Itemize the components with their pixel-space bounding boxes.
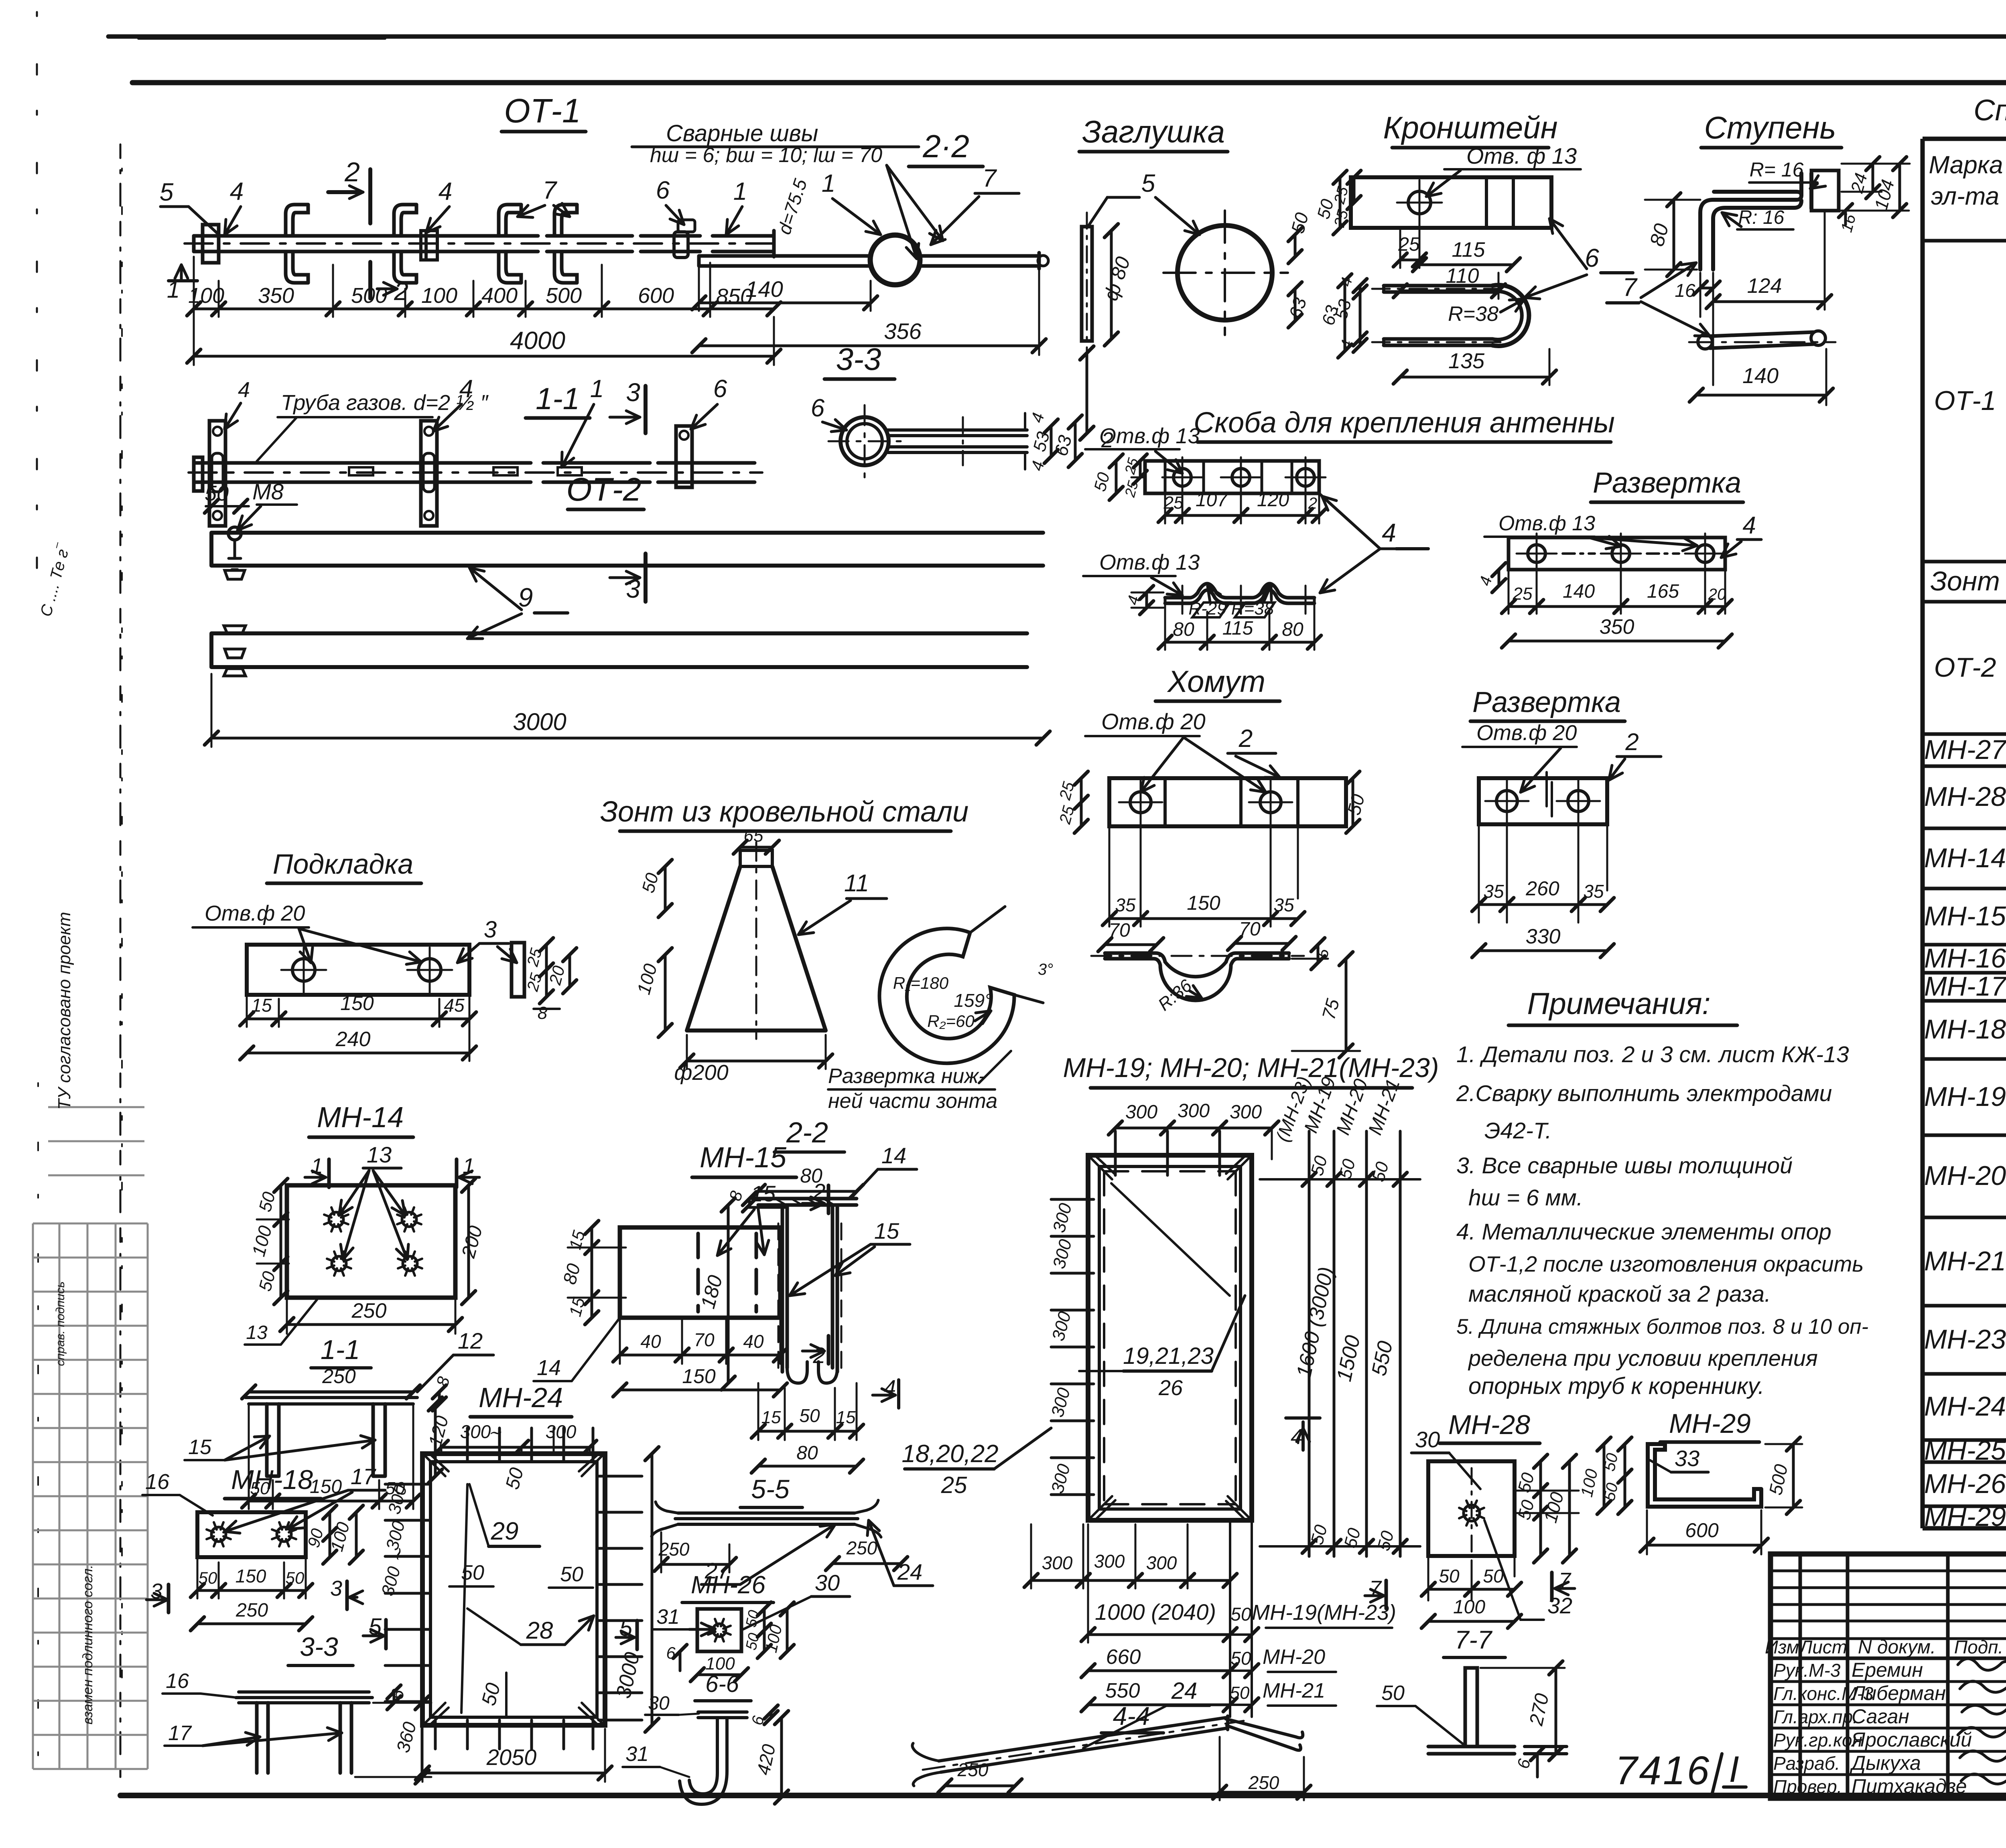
- МН-19 bottom extension verticals: [1230, 1520, 1252, 1717]
- svg-text:2: 2: [394, 277, 408, 306]
- 2-2 dim 356: [699, 345, 1039, 347]
- svg-text:300: 300: [1178, 1100, 1210, 1122]
- svg-text:МН-14: МН-14: [1924, 843, 2006, 873]
- svg-text:4000: 4000: [510, 327, 565, 355]
- svg-text:4: 4: [459, 375, 473, 403]
- svg-text:Разраб.: Разраб.: [1773, 1753, 1840, 1774]
- svg-text:МН-23: МН-23: [1924, 1324, 2006, 1355]
- Скоба plate with 3 holes: [1145, 461, 1319, 493]
- МН-18 dim 250: [197, 1623, 306, 1625]
- svg-text:80: 80: [800, 1164, 822, 1187]
- МН-28 dim 100: [1428, 1620, 1515, 1623]
- svg-text:1-1: 1-1: [321, 1335, 360, 1365]
- Подкладка dim 240: [247, 1052, 469, 1055]
- svg-text:Лист: Лист: [1799, 1637, 1847, 1657]
- title block header row line: [1770, 1657, 2006, 1660]
- Развертка dims: [1509, 566, 1725, 614]
- svg-text:Либерман: Либерман: [1850, 1682, 1946, 1704]
- Зонт funnel: [740, 850, 772, 866]
- svg-text:30: 30: [648, 1693, 670, 1714]
- OT-1 left flange plate: [203, 225, 219, 263]
- 2-2 dim 80 bottom: [758, 1465, 857, 1468]
- Развертка-2 dims: [1479, 815, 1607, 923]
- svg-text:12: 12: [458, 1328, 483, 1353]
- МН-14 plate: [287, 1185, 455, 1298]
- svg-text:120: 120: [1257, 489, 1289, 511]
- svg-text:R₂=60: R₂=60: [927, 1012, 975, 1030]
- spec table grid: [1923, 139, 2006, 1528]
- Подкладка plate: [247, 945, 469, 995]
- svg-text:Изм.: Изм.: [1765, 1637, 1804, 1657]
- Кронштейн loop ring: [1492, 285, 1529, 346]
- svg-text:Провер.: Провер.: [1773, 1776, 1842, 1797]
- svg-text:5. Длина стяжных болтов поз.: 5. Длина стяжных болтов поз. 8 и 10 оп-: [1456, 1315, 1868, 1339]
- title block verticals left part: [1800, 1554, 2006, 1798]
- МН-24 bottom dim 2050: [422, 1772, 605, 1775]
- svg-text:13: 13: [367, 1142, 392, 1167]
- svg-text:140: 140: [1742, 364, 1779, 388]
- svg-text:Кронштейн: Кронштейн: [1383, 110, 1557, 145]
- svg-text:50: 50: [199, 1568, 217, 1587]
- svg-text:16: 16: [1675, 280, 1695, 301]
- Заглушка plate side view: [1082, 227, 1092, 341]
- svg-text:МН-18: МН-18: [1924, 1014, 2006, 1045]
- svg-text:240: 240: [335, 1028, 371, 1051]
- svg-text:31: 31: [625, 1743, 649, 1766]
- МН-14 1-1 top plate: [246, 1392, 417, 1404]
- svg-text:15: 15: [761, 1408, 781, 1427]
- svg-text:135: 135: [1448, 349, 1485, 373]
- 1-1 pipe beam: [195, 463, 755, 482]
- svg-text:300: 300: [1230, 1101, 1262, 1123]
- svg-text:ОТ-2: ОТ-2: [1934, 652, 1996, 683]
- svg-text:7: 7: [983, 164, 997, 192]
- svg-text:опорных труб к кореннику.: опорных труб к кореннику.: [1468, 1373, 1764, 1399]
- 7-7 right base stub: [1525, 1747, 1567, 1754]
- svg-text:17: 17: [168, 1722, 192, 1745]
- svg-text:35: 35: [1273, 895, 1294, 915]
- 2-2 bottom dims 15 50 15: [758, 1383, 857, 1440]
- svg-text:16: 16: [145, 1470, 170, 1494]
- OT-2 lower beam bolts: [224, 626, 246, 676]
- svg-text:15: 15: [836, 1408, 856, 1427]
- svg-text:165: 165: [1647, 581, 1679, 602]
- svg-text:Развертка ниж-: Развертка ниж-: [828, 1065, 985, 1088]
- svg-text:15: 15: [874, 1218, 899, 1243]
- svg-text:МН-25: МН-25: [1924, 1435, 2006, 1466]
- svg-text:МН-26: МН-26: [1924, 1469, 2006, 1499]
- svg-text:115: 115: [1222, 618, 1253, 639]
- Хомут U profile: [1105, 953, 1289, 977]
- Подкладка side plate: [512, 943, 524, 997]
- bottom frame border: [120, 1793, 2006, 1798]
- svg-text:100: 100: [421, 284, 457, 308]
- МН-15 plate: [620, 1227, 780, 1318]
- svg-text:24: 24: [1171, 1678, 1198, 1704]
- svg-text:6: 6: [811, 394, 825, 422]
- svg-text:Развертка: Развертка: [1593, 467, 1741, 499]
- Скоба R labels in parallelogram: [1192, 602, 1275, 617]
- svg-text:МН-15: МН-15: [1924, 901, 2006, 931]
- МН-18 3-3 legs: [257, 1703, 351, 1773]
- svg-text:50: 50: [286, 1568, 305, 1587]
- svg-text:4: 4: [1382, 518, 1396, 547]
- svg-text:2: 2: [1239, 725, 1253, 753]
- МН-28 bottom dims 50 50: [1428, 1556, 1515, 1601]
- svg-text:500: 500: [546, 284, 582, 308]
- svg-text:МН-21: МН-21: [1263, 1679, 1325, 1702]
- svg-text:300: 300: [1146, 1552, 1177, 1573]
- МН-18 plate: [197, 1512, 306, 1557]
- svg-text:3000: 3000: [513, 708, 566, 735]
- МН-14 bottom dim 250: [287, 1323, 455, 1326]
- svg-text:115: 115: [1452, 238, 1486, 262]
- Подкладка dims 15 150 45: [247, 995, 469, 1061]
- 2-2 channel webs: [782, 1205, 837, 1372]
- OT-1 dimension chain: [194, 308, 774, 310]
- svg-text:3: 3: [484, 917, 497, 943]
- svg-text:R=38: R=38: [1448, 302, 1498, 326]
- svg-text:Ярославский: Ярославский: [1850, 1728, 1972, 1751]
- svg-text:1-1: 1-1: [536, 382, 580, 416]
- svg-text:ней части зонта: ней части зонта: [828, 1089, 997, 1113]
- svg-text:МН-20: МН-20: [1263, 1645, 1325, 1669]
- svg-text:Рук.М-3: Рук.М-3: [1773, 1660, 1841, 1681]
- svg-text:I: I: [1729, 1749, 1739, 1790]
- svg-text:2·2: 2·2: [922, 128, 969, 164]
- 2-2 right plate: [920, 253, 1039, 269]
- svg-text:МН-27: МН-27: [1924, 734, 2006, 765]
- Развертка dim 350: [1509, 640, 1725, 643]
- svg-text:35: 35: [1583, 881, 1604, 902]
- svg-text:ОТ-1: ОТ-1: [504, 92, 581, 130]
- svg-text:14: 14: [881, 1143, 906, 1168]
- svg-text:50: 50: [1439, 1566, 1460, 1586]
- svg-text:250: 250: [351, 1299, 387, 1323]
- svg-text:19,21,23: 19,21,23: [1123, 1343, 1214, 1369]
- svg-text:Еремин: Еремин: [1852, 1659, 1923, 1681]
- МН-24 left ticks: [385, 1483, 429, 1486]
- svg-text:Спецификация металла на ма: Спецификация металла на марку.: [1974, 93, 2006, 127]
- svg-text:Гл.арх.пр.: Гл.арх.пр.: [1773, 1706, 1858, 1727]
- svg-text:2: 2: [1308, 495, 1317, 512]
- svg-text:Скоба для крепления антенны: Скоба для крепления антенны: [1194, 407, 1615, 439]
- МН-19 outer frame: [1088, 1155, 1252, 1520]
- svg-text:Хомут: Хомут: [1167, 665, 1265, 699]
- svg-text:МН-19; МН-20; МН-21(МН-23): МН-19; МН-20; МН-21(МН-23): [1063, 1053, 1439, 1083]
- 7-7 base plate: [1428, 1747, 1515, 1754]
- svg-text:150: 150: [682, 1365, 716, 1388]
- svg-text:Отв. ф 13: Отв. ф 13: [1466, 143, 1577, 168]
- svg-text:25: 25: [1513, 584, 1533, 604]
- svg-text:МН-14: МН-14: [317, 1101, 404, 1134]
- svg-text:600: 600: [1685, 1519, 1719, 1542]
- 1-1 right clamp plate: [676, 426, 692, 487]
- Развертка-2 plate: [1479, 778, 1607, 824]
- 1-1 weld tabs on beam: [349, 467, 582, 475]
- svg-text:11: 11: [844, 870, 869, 897]
- svg-text:Примечания:: Примечания:: [1527, 987, 1710, 1021]
- svg-text:15: 15: [188, 1436, 212, 1459]
- 4-4 strap bar (slanted): [939, 1718, 1228, 1772]
- svg-text:1: 1: [590, 375, 604, 403]
- svg-text:МН-28: МН-28: [1448, 1410, 1530, 1440]
- МН-29 bottom dim 600: [1647, 1544, 1761, 1547]
- svg-text:159°: 159°: [954, 990, 992, 1011]
- svg-text:25: 25: [1163, 493, 1184, 513]
- svg-text:Ступень: Ступень: [1704, 110, 1836, 145]
- 5-5 hooks at ends: [652, 1500, 881, 1537]
- svg-text:250: 250: [1248, 1772, 1279, 1793]
- 1-1 left end cap: [194, 457, 203, 491]
- svg-text:МН-21: МН-21: [1924, 1246, 2006, 1276]
- svg-text:МН-24: МН-24: [1924, 1391, 2006, 1422]
- svg-text:24: 24: [897, 1559, 922, 1584]
- svg-text:Отв.ф 13: Отв.ф 13: [1099, 424, 1200, 448]
- svg-text:Зонт: Зонт: [1930, 566, 2000, 596]
- OT-2 lower beam: [211, 633, 1027, 667]
- svg-text:2: 2: [344, 157, 360, 187]
- svg-text:МН-15: МН-15: [700, 1142, 787, 1174]
- svg-text:МН-29: МН-29: [1669, 1408, 1751, 1439]
- svg-text:300: 300: [1042, 1552, 1073, 1573]
- svg-text:250: 250: [846, 1538, 877, 1558]
- svg-text:МН-24: МН-24: [479, 1382, 563, 1413]
- svg-text:2.Сварку выполнить электрода: 2.Сварку выполнить электродами: [1456, 1081, 1832, 1106]
- svg-text:150: 150: [340, 992, 374, 1014]
- svg-text:Труба газов. d=2 ½ ″: Труба газов. d=2 ½ ″: [281, 391, 489, 415]
- МН-19 bottom 300 dims: [1030, 1524, 1032, 1588]
- svg-text:5: 5: [160, 179, 174, 206]
- left margin perforation text column (dashed): [120, 144, 122, 1777]
- Хомут bottom dims: [1109, 816, 1298, 927]
- МН-19 top ticks: [1114, 1131, 1117, 1175]
- svg-text:эл-та: эл-та: [1931, 183, 1999, 210]
- OT-1 pipe beam: [194, 236, 774, 252]
- svg-text:350: 350: [1600, 615, 1634, 639]
- svg-text:33: 33: [1675, 1446, 1699, 1471]
- svg-text:Сварные швы: Сварные швы: [666, 120, 818, 146]
- svg-text:140: 140: [745, 276, 783, 302]
- svg-text:2-2: 2-2: [786, 1117, 828, 1149]
- svg-text:Развертка: Развертка: [1472, 686, 1621, 718]
- svg-text:6: 6: [656, 176, 670, 204]
- OT-2 dim 3000: [211, 737, 1043, 740]
- svg-text:15: 15: [251, 995, 272, 1016]
- svg-text:150: 150: [236, 1566, 266, 1586]
- svg-text:260: 260: [1525, 877, 1559, 900]
- svg-text:32: 32: [1547, 1593, 1572, 1618]
- OT-1 couplings: [421, 231, 437, 260]
- МН-19 right measure ladder: [1309, 1131, 1400, 1556]
- МН-26 square plate: [697, 1609, 741, 1651]
- svg-text:hш = 6 мм.: hш = 6 мм.: [1468, 1185, 1583, 1211]
- svg-text:29: 29: [491, 1517, 519, 1545]
- МН-19 ladder bottom 50 dims: [1302, 1540, 1316, 1553]
- 3-3 pipe rings: [841, 417, 889, 465]
- svg-text:Подп.: Подп.: [1954, 1637, 2003, 1657]
- svg-text:2: 2: [1625, 728, 1639, 755]
- МН-18 bottom dims 50 150 50: [197, 1557, 306, 1598]
- svg-text:13: 13: [246, 1322, 268, 1343]
- 4-4 right end prongs: [1226, 1719, 1303, 1750]
- OT-1 lower clamp hooks (mirrored): [286, 252, 308, 283]
- 2-2 dim 140: [699, 302, 871, 304]
- Кронштейн plate: [1351, 177, 1551, 228]
- svg-text:250: 250: [658, 1539, 690, 1560]
- svg-text:14: 14: [537, 1356, 561, 1380]
- svg-text:17: 17: [351, 1464, 376, 1489]
- svg-text:1000 (2040): 1000 (2040): [1095, 1599, 1216, 1625]
- title block top small rows: [1770, 1570, 2006, 1572]
- 3-3 strap bars: [888, 430, 1027, 452]
- svg-text:3: 3: [330, 1576, 342, 1601]
- МН-15 dim 150: [620, 1389, 780, 1392]
- OT-1 overall dim 4000: [194, 355, 774, 358]
- svg-text:R=38: R=38: [1231, 599, 1274, 619]
- svg-text:Питхакадзе: Питхакадзе: [1852, 1775, 1967, 1797]
- svg-text:50: 50: [1230, 1604, 1251, 1625]
- svg-text:31: 31: [656, 1605, 680, 1629]
- svg-text:7: 7: [1622, 273, 1638, 302]
- Скоба dims below: [1165, 514, 1319, 517]
- svg-text:МН-19: МН-19: [1924, 1081, 2006, 1112]
- МН-24 corner welds: [425, 1455, 602, 1724]
- svg-text:107: 107: [1196, 489, 1228, 511]
- svg-text:18,20,22: 18,20,22: [901, 1440, 998, 1468]
- МН-26 bottom dim 100: [697, 1674, 741, 1676]
- 4-4 left end hooks: [912, 1743, 941, 1786]
- svg-text:300: 300: [1094, 1551, 1125, 1572]
- Кронштейн loop bracket bars: [1384, 286, 1492, 345]
- МН-14 1-1 bottom dims: [249, 1404, 413, 1509]
- svg-text:R= 16: R= 16: [1750, 158, 1804, 181]
- 2-2 left plate: [699, 256, 871, 266]
- svg-text:45: 45: [444, 995, 465, 1016]
- svg-text:3-3: 3-3: [836, 341, 881, 377]
- svg-text:140: 140: [1563, 581, 1595, 602]
- МН-24 outer frame: [422, 1454, 605, 1725]
- svg-text:ТУ согласовано проект: ТУ согласовано проект: [55, 912, 74, 1110]
- svg-text:300: 300: [1125, 1101, 1157, 1123]
- svg-text:5: 5: [1141, 170, 1155, 197]
- 6-6 plate with J-hook: [698, 1712, 747, 1718]
- OT-2 upper beam: [211, 533, 1043, 566]
- svg-text:ределена при условии крепл: ределена при условии крепления: [1468, 1345, 1818, 1371]
- svg-text:6: 6: [713, 375, 727, 403]
- svg-text:Э42-Т.: Э42-Т.: [1484, 1118, 1552, 1144]
- Хомут plate: [1109, 778, 1346, 826]
- svg-text:50: 50: [1483, 1566, 1504, 1586]
- svg-text:Дыкуха: Дыкуха: [1850, 1752, 1921, 1774]
- svg-text:ОТ-1: ОТ-1: [1934, 385, 1996, 416]
- svg-text:28: 28: [526, 1617, 553, 1644]
- svg-text:МН-26: МН-26: [691, 1571, 766, 1599]
- svg-text:80: 80: [796, 1442, 818, 1464]
- 2-2 top flange: [758, 1199, 857, 1205]
- svg-text:МН-17: МН-17: [1924, 971, 2006, 1002]
- МН-28 plate: [1428, 1461, 1515, 1556]
- svg-text:26: 26: [1158, 1376, 1183, 1400]
- OT-2 upper beam bolt: [228, 527, 241, 540]
- Заглушка disc: [1178, 225, 1272, 320]
- left margin faint stamp grid: [33, 1107, 148, 1769]
- svg-text:справ. подпись: справ. подпись: [54, 1282, 67, 1366]
- Ступень wall plate: [1811, 170, 1839, 211]
- svg-text:3-3: 3-3: [300, 1632, 338, 1661]
- svg-text:Отв.ф 20: Отв.ф 20: [1101, 709, 1206, 734]
- svg-text:250: 250: [236, 1600, 268, 1621]
- МН-15 bottom dims 40 70 40: [620, 1318, 780, 1364]
- svg-text:1: 1: [822, 170, 835, 197]
- svg-text:Подкладка: Подкладка: [273, 848, 413, 880]
- svg-text:Отв.ф 13: Отв.ф 13: [1099, 550, 1200, 574]
- svg-text:Отв.ф 20: Отв.ф 20: [1476, 721, 1577, 745]
- svg-text:50: 50: [1381, 1682, 1405, 1705]
- title block signature rows: [1770, 1680, 2006, 1683]
- 5-5 bar: [675, 1513, 858, 1524]
- svg-text:2050: 2050: [486, 1745, 537, 1770]
- sheet top border line (inner frame): [132, 80, 2006, 85]
- МН-19 inner diagonal: [1079, 1183, 1230, 1371]
- 2-2 pipe circle: [870, 235, 920, 285]
- svg-text:4: 4: [238, 378, 250, 402]
- svg-text:1: 1: [733, 178, 747, 205]
- МН-24 top/bottom ticks: [434, 1428, 437, 1749]
- svg-text:3: 3: [626, 378, 640, 407]
- svg-text:250: 250: [957, 1759, 989, 1780]
- svg-text:150: 150: [1187, 892, 1220, 914]
- МН-24 right ticks: [599, 1475, 642, 1478]
- svg-text:330: 330: [1526, 925, 1561, 948]
- svg-text:16: 16: [166, 1669, 189, 1693]
- svg-text:N докум.: N докум.: [1858, 1637, 1936, 1658]
- svg-text:МН-18: МН-18: [231, 1465, 313, 1495]
- svg-text:50: 50: [799, 1405, 820, 1426]
- svg-text:МН-28: МН-28: [1924, 781, 2006, 812]
- svg-text:80: 80: [1173, 619, 1194, 640]
- svg-text:30: 30: [815, 1570, 840, 1595]
- Ступень Z strap profile: [1700, 200, 1714, 270]
- svg-text:100: 100: [1453, 1596, 1485, 1618]
- svg-text:8: 8: [538, 1003, 548, 1023]
- svg-text:МН-16: МН-16: [1924, 943, 2006, 974]
- svg-text:70: 70: [694, 1329, 715, 1350]
- svg-text:Отв.ф 20: Отв.ф 20: [205, 901, 305, 925]
- МН-29 channel profile: [1648, 1444, 1761, 1507]
- svg-text:Марка: Марка: [1929, 151, 2003, 179]
- svg-text:100: 100: [188, 284, 224, 308]
- svg-text:4: 4: [1291, 1425, 1303, 1449]
- svg-text:600: 600: [638, 284, 674, 308]
- svg-text:М8: М8: [252, 479, 284, 504]
- svg-text:Заглушка: Заглушка: [1082, 114, 1225, 149]
- Скоба corrugated strip: [1165, 584, 1314, 598]
- svg-text:50: 50: [560, 1563, 583, 1586]
- OT-1 upper clamp hooks: [286, 205, 308, 236]
- svg-text:25: 25: [941, 1472, 967, 1498]
- svg-text:Саган: Саган: [1852, 1705, 1909, 1728]
- МН-19 left ticks: [1051, 1198, 1094, 1201]
- sheet top border line (outer): [108, 34, 2006, 39]
- МН-14 1-1 legs: [267, 1404, 385, 1476]
- svg-text:МН-29: МН-29: [1924, 1501, 2006, 1532]
- 2-2 web hooks: [787, 1362, 837, 1383]
- Зонт развертка ring: [879, 929, 1014, 1063]
- svg-text:Отв.ф 13: Отв.ф 13: [1498, 512, 1595, 535]
- svg-text:124: 124: [1747, 274, 1782, 298]
- svg-text:МН-19(МН-23): МН-19(МН-23): [1252, 1601, 1396, 1625]
